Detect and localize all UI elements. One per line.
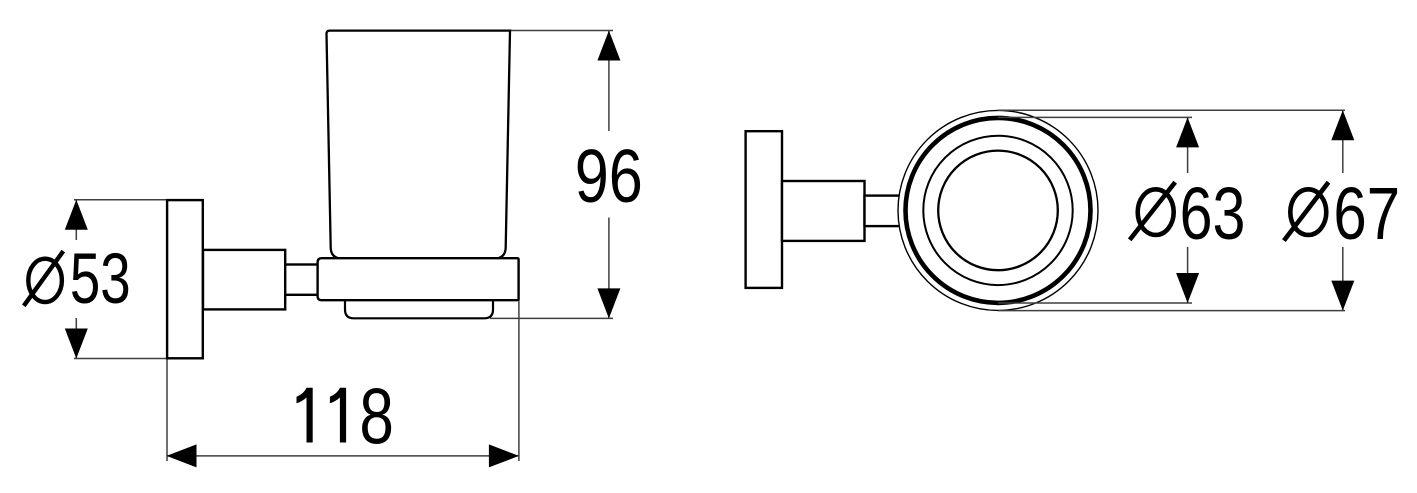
wire: dim 118 dimension line bbox=[167, 455, 519, 457]
arrow: dim 118 right bbox=[489, 444, 519, 467]
holder ring inner edge circle bbox=[923, 136, 1072, 285]
wall plate (top view) bbox=[746, 131, 782, 288]
arrow: dim Ø53 top bbox=[65, 200, 88, 230]
wire: dim Ø63 bottom extension line bbox=[998, 302, 1192, 304]
wire: dim Ø63 dimension line bbox=[1187, 118, 1189, 173]
glass rim outer circle (top view) bbox=[898, 110, 1098, 310]
wire: dim 118 right extension line bbox=[518, 300, 520, 461]
label Ø63 : diameter symbol drawn as ellipse + slash bbox=[1138, 189, 1174, 235]
svg-text:67: 67 bbox=[1333, 173, 1400, 255]
arrow: dim 96 bottom bbox=[597, 288, 620, 318]
arrow: dim 96 top bbox=[597, 31, 620, 61]
wire: dim 96 dimension line bbox=[608, 31, 610, 131]
wall plate (side view) bbox=[167, 200, 203, 358]
svg-text:63: 63 bbox=[1180, 173, 1246, 256]
arm wide section (side view) bbox=[203, 250, 285, 310]
glass bottom protruding below holder ring bbox=[345, 299, 493, 318]
arrow: dim Ø67 bottom bbox=[1331, 281, 1354, 311]
wire: dim 96 bottom extension line bbox=[490, 317, 613, 319]
arrow: dim Ø53 bottom bbox=[65, 329, 88, 359]
wire: dim Ø53 dimension line bbox=[75, 200, 77, 240]
wire: dim 96 top extension line bbox=[74, 31, 613, 462]
wire: dim Ø63 top extension line bbox=[998, 116, 1192, 118]
wire: dim Ø67 dimension line bbox=[1342, 111, 1344, 173]
arrow: dim Ø63 top bbox=[1176, 117, 1199, 147]
svg-text:8: 8 bbox=[359, 373, 393, 461]
label Ø53 : diameter symbol drawn as ellipse + slash bbox=[28, 259, 62, 302]
label Ø67 : diameter symbol drawn as ellipse + slash bbox=[1290, 189, 1326, 235]
label 118 : digit 1 bbox=[330, 388, 346, 443]
glass tumbler (side view) bbox=[326, 31, 510, 259]
svg-text:96: 96 bbox=[575, 134, 643, 218]
wire: dim Ø53 bottom extension line bbox=[74, 358, 167, 360]
holder ring (side view) bbox=[318, 258, 519, 300]
svg-text:53: 53 bbox=[70, 240, 131, 318]
wire: dim Ø67 top extension line bbox=[998, 109, 1345, 111]
glass inner circle (top view) bbox=[938, 151, 1058, 271]
holder ring outer edge circle (thick) bbox=[906, 118, 1091, 303]
arm narrow section (top view) bbox=[865, 196, 901, 227]
wire: dim Ø53 top extension line bbox=[74, 199, 167, 201]
arrow: dim Ø63 bottom bbox=[1176, 273, 1199, 303]
label 118 : digit 1 bbox=[297, 388, 313, 443]
arm narrow section (side view) bbox=[285, 265, 318, 295]
wire: dim Ø67 bottom extension line bbox=[998, 310, 1345, 312]
arrow: dim Ø67 top bbox=[1331, 110, 1354, 140]
arrow: dim 118 left bbox=[167, 444, 197, 467]
arm wide section (top view) bbox=[782, 181, 865, 241]
wire: dim 118 left extension line bbox=[166, 359, 168, 462]
